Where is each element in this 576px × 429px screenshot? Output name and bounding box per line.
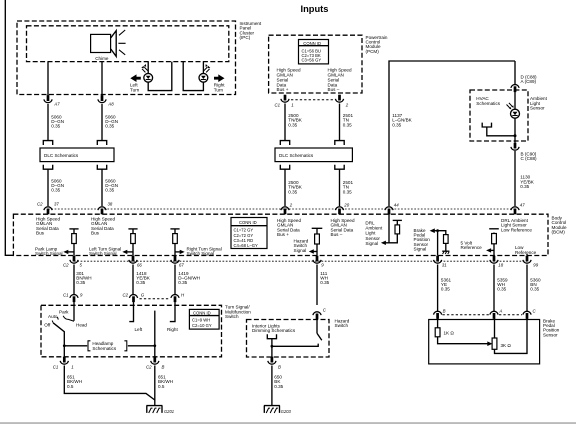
svg-text:Off: Off <box>44 323 51 328</box>
svg-text:1: 1 <box>291 102 294 107</box>
wire pin B to 1K resistor <box>437 319 439 328</box>
svg-text:A (C89): A (C89) <box>521 79 537 84</box>
bottom separator line <box>0 422 576 424</box>
svg-text:Turn: Turn <box>130 87 140 92</box>
connector pin 5 below BCM <box>70 256 78 263</box>
wire 5359 WH <box>493 265 495 312</box>
svg-text:Bus +: Bus + <box>277 232 289 237</box>
connector pin 99 below BCM <box>523 256 531 263</box>
left turn resistor (BCM internal) <box>128 229 137 256</box>
svg-text:0.35: 0.35 <box>136 280 145 285</box>
ground G201 <box>146 406 162 413</box>
connector B (C90) / C (C88) at HVAC box <box>511 143 519 150</box>
wire 5060 D-GN lower right <box>101 169 103 206</box>
connector D (C88) / A (C89) at HVAC box <box>511 85 519 92</box>
connector pin 2 of PCM <box>335 95 343 102</box>
svg-text:Switch Signal: Switch Signal <box>35 251 63 256</box>
hazard switch wire from pin C <box>316 319 318 333</box>
svg-text:A: A <box>499 309 503 314</box>
svg-text:0.5: 0.5 <box>67 384 74 389</box>
svg-text:3K Ω: 3K Ω <box>501 343 512 348</box>
5 volt reference resistor <box>492 234 497 244</box>
svg-text:31: 31 <box>442 263 447 268</box>
svg-text:0.35: 0.35 <box>105 124 114 129</box>
svg-text:Head: Head <box>76 322 87 327</box>
svg-text:Sensor: Sensor <box>543 332 558 337</box>
svg-text:Signal: Signal <box>294 248 307 253</box>
bracket connector above DLC box 2 left pin <box>280 141 289 145</box>
DRL ambient light sensor signal resistor (BCM internal) <box>386 220 402 242</box>
brake pedal position sensor signal wire and arrow (BCM internal) <box>430 228 446 255</box>
connector pin 66 below BCM <box>129 256 137 263</box>
DLC schematics box (left) <box>40 148 114 162</box>
hazard switch common wire <box>272 344 318 347</box>
svg-text:0.35: 0.35 <box>441 287 450 292</box>
svg-text:Inputs: Inputs <box>301 4 329 14</box>
DRL signal arrow <box>381 241 386 245</box>
svg-text:A7: A7 <box>53 102 60 107</box>
connector pin C1 1 of PCM <box>281 95 289 102</box>
wire turn signal common down <box>154 346 156 357</box>
bracket connector below DLC box right pin <box>97 165 106 169</box>
park lamp resistor (BCM internal) <box>69 229 78 256</box>
svg-text:18: 18 <box>498 263 503 268</box>
chime sub-box (dashed) <box>27 26 229 62</box>
svg-text:66: 66 <box>137 263 142 268</box>
connector pin H at switch <box>171 295 179 302</box>
wire 2501 TN upper <box>339 104 341 141</box>
svg-text:0.35: 0.35 <box>343 122 352 127</box>
powertrain control module box <box>269 35 362 93</box>
connector pin C1 1 below switch <box>60 357 68 364</box>
brake pedal position sensor box <box>429 320 540 364</box>
wire 1419 D-GN/WH <box>174 265 176 295</box>
svg-text:Reference: Reference <box>461 245 483 250</box>
left turn indicator lamp <box>141 62 152 83</box>
svg-text:CONN ID: CONN ID <box>303 41 321 46</box>
page left border line <box>5 0 13 255</box>
svg-text:CONN ID: CONN ID <box>193 311 211 316</box>
hazard resistor (BCM internal) <box>312 228 323 255</box>
connector pin 9 below BCM <box>313 256 321 263</box>
headlamp switch blade <box>53 323 64 346</box>
wire 1130 YE/BK <box>514 151 516 206</box>
connector pin C at brake pedal sensor <box>523 311 531 318</box>
interior lights bracket connector <box>267 334 276 339</box>
svg-text:44: 44 <box>394 202 399 207</box>
svg-text:Bus +: Bus + <box>277 87 289 92</box>
svg-text:C2: C2 <box>146 364 152 369</box>
svg-text:Signal: Signal <box>365 241 378 246</box>
svg-text:C1: C1 <box>275 102 281 107</box>
svg-text:5: 5 <box>80 263 83 268</box>
wiper wire with arrow <box>438 337 493 346</box>
connector pin C2 G at switch <box>129 295 137 302</box>
wire 3K resistor to pin C <box>495 319 528 354</box>
svg-text:38: 38 <box>108 201 113 206</box>
svg-text:B: B <box>162 364 165 369</box>
svg-text:DLC Schematics: DLC Schematics <box>279 153 314 158</box>
5 volt reference wire and arrow (BCM internal) <box>486 229 499 256</box>
PCM CONN ID table <box>299 40 329 64</box>
right turn indicator lamp <box>199 62 210 83</box>
bracket connector below DLC box left pin <box>43 165 52 169</box>
1K resistor <box>435 328 440 337</box>
bracket connector above DLC box 2 right pin <box>335 141 344 145</box>
junction dot headlamp common <box>63 344 66 347</box>
svg-text:Reference: Reference <box>515 250 537 255</box>
headlamp switch off contact tick <box>51 321 54 323</box>
svg-text:(BCM): (BCM) <box>552 230 566 235</box>
svg-text:Switch Signal: Switch Signal <box>89 251 117 256</box>
brake pedal sensor internal resistor <box>444 235 449 244</box>
svg-text:DLC Schematics: DLC Schematics <box>44 153 79 158</box>
svg-text:0.35: 0.35 <box>343 189 352 194</box>
svg-text:Schematics: Schematics <box>476 101 500 106</box>
wire 2501 TN lower <box>339 169 341 206</box>
headlamp switch auto contact tick <box>56 317 59 320</box>
bracket connector below DLC box 2 right pin <box>335 165 344 169</box>
hazard signal arrow <box>309 249 317 253</box>
svg-text:0.35: 0.35 <box>178 280 187 285</box>
svg-text:Bus –: Bus – <box>331 232 343 237</box>
wire headlamp common down <box>63 346 65 357</box>
wire pin A to 3K resistor <box>494 319 496 339</box>
svg-text:C2: C2 <box>123 293 129 298</box>
hazard switch blade <box>317 333 322 340</box>
switch CONN ID table <box>189 309 219 329</box>
ground G203 <box>264 406 280 413</box>
svg-text:Turn: Turn <box>214 87 224 92</box>
svg-text:H: H <box>181 293 185 298</box>
turn signal switch blade <box>154 311 156 346</box>
wire 651 left <box>64 366 155 401</box>
connector pin 38 at BCM <box>98 207 106 214</box>
wire 650 BK <box>271 366 273 406</box>
connector pin A7 <box>44 95 52 102</box>
low reference wire stub to pin 99 <box>526 254 528 256</box>
wire chime box to pin A8 <box>101 62 103 96</box>
svg-text:Right: Right <box>167 327 178 332</box>
wire 5060 D-GN upper right <box>101 104 103 140</box>
wire chime box to pin A7 <box>47 62 49 96</box>
wire 1418 YE/BK <box>132 265 134 295</box>
junction dot hazard common <box>271 345 274 348</box>
DRL ambient light sensor signal wire (pin 44 internal) <box>388 214 390 243</box>
svg-text:Schematics: Schematics <box>92 346 116 351</box>
left turn arrow icon <box>130 74 141 82</box>
svg-text:C (C88): C (C88) <box>521 156 538 161</box>
wire 111 WH <box>316 265 318 306</box>
connector dashed link C1 <box>291 99 334 101</box>
connector pin A at brake pedal sensor <box>490 311 498 318</box>
wire 2500 TN/BK upper <box>284 104 286 141</box>
svg-text:G203: G203 <box>281 409 292 414</box>
park lamp signal arrow <box>63 250 74 254</box>
svg-text:C2: C2 <box>63 263 69 268</box>
svg-text:G201: G201 <box>164 409 174 414</box>
wire 1137 L-GN/BK (BCM 44 up and over to sensor) <box>389 61 515 206</box>
svg-text:0.35: 0.35 <box>520 184 529 189</box>
HVAC schematics box <box>470 90 528 141</box>
connector dotted link A to C <box>499 314 522 316</box>
body control module box <box>13 214 548 255</box>
svg-text:Switch Signal: Switch Signal <box>187 251 215 256</box>
interior lights dimming box (dashed) <box>247 320 330 358</box>
svg-text:9: 9 <box>80 293 83 298</box>
svg-text:Park: Park <box>59 309 69 314</box>
svg-text:0.35: 0.35 <box>320 280 329 285</box>
svg-text:0.35: 0.35 <box>76 280 85 285</box>
svg-text:0.35: 0.35 <box>105 188 114 193</box>
connector dotted line top row <box>48 208 515 210</box>
right turn arrow icon <box>214 74 225 82</box>
svg-text:0.5: 0.5 <box>158 384 165 389</box>
svg-text:2: 2 <box>345 102 349 107</box>
connector pin A8 <box>98 95 106 102</box>
connector pin B at brake pedal sensor <box>434 311 442 318</box>
svg-text:Bus –: Bus – <box>328 87 340 92</box>
connector dotted link B to A <box>443 314 490 316</box>
svg-text:Left: Left <box>135 327 143 332</box>
brake pedal sensor internal ground <box>442 243 449 254</box>
svg-text:0.35: 0.35 <box>530 287 539 292</box>
bracket connector above DLC box right pin <box>97 141 106 145</box>
connector dotted line bottom row <box>74 260 527 262</box>
wire 5360 BN <box>526 265 528 312</box>
svg-text:67: 67 <box>179 263 184 268</box>
instrument panel cluster module box <box>17 21 236 95</box>
wire 5060 D-GN upper left <box>47 104 49 140</box>
BCM CONN ID table <box>231 218 267 249</box>
svg-text:C1: C1 <box>53 364 59 369</box>
svg-text:Bus: Bus <box>91 231 100 236</box>
junction dot <box>514 134 517 137</box>
connector pin C at hazard switch <box>313 312 321 319</box>
svg-text:(IPC): (IPC) <box>240 35 251 40</box>
svg-text:C1: C1 <box>63 293 69 298</box>
wire into photodiode <box>514 91 516 110</box>
svg-text:1: 1 <box>71 364 74 369</box>
junction dot turn signal common <box>153 344 156 347</box>
wire right indicator loop <box>183 62 203 91</box>
left turn signal arrow <box>122 250 133 254</box>
svg-text:0.35: 0.35 <box>51 124 60 129</box>
svg-text:CONN ID: CONN ID <box>239 220 257 225</box>
connector pin B below hazard box <box>268 357 276 364</box>
wire 301 BN/WH <box>73 265 75 295</box>
bracket connector above DLC box left pin <box>43 141 52 145</box>
HVAC branch bracket connector <box>482 123 491 127</box>
connector pin 20 at BCM <box>335 207 343 214</box>
wire photodiode to junction <box>514 118 516 143</box>
headlamp schematics right bracket <box>124 341 126 351</box>
svg-text:47: 47 <box>520 202 525 207</box>
svg-text:B: B <box>278 364 281 369</box>
svg-text:(PCM): (PCM) <box>366 49 380 54</box>
svg-text:Auto: Auto <box>48 314 58 319</box>
svg-text:20: 20 <box>343 202 349 207</box>
bracket stem wire <box>271 339 273 357</box>
wire left indicator loop <box>148 62 172 91</box>
svg-text:37: 37 <box>54 201 59 206</box>
wire pin H down to right contact <box>170 302 175 322</box>
svg-text:C2: C2 <box>37 201 43 206</box>
connector pin 37 at BCM <box>44 207 52 214</box>
right turn signal arrow <box>175 250 185 254</box>
connector pin 31 below BCM <box>434 256 442 263</box>
ambient light sensor photodiode <box>507 103 520 118</box>
svg-text:C: C <box>533 309 537 314</box>
wire pin 9 down to head contact <box>73 302 75 321</box>
connector dotted link G to H <box>140 298 171 300</box>
headlamp bus wire to turn signal common <box>128 345 155 347</box>
wire ambient light sensor drop <box>514 61 516 84</box>
svg-text:0.35: 0.35 <box>274 384 283 389</box>
connector pin C1 9 at switch <box>70 295 78 302</box>
right turn resistor (BCM internal) <box>170 229 179 256</box>
wire 5060 D-GN lower left <box>47 169 49 206</box>
wire 651 right <box>154 366 156 406</box>
HVAC branch wire <box>487 127 515 136</box>
svg-text:C3=56 GY: C3=56 GY <box>302 57 322 62</box>
svg-text:1K Ω: 1K Ω <box>444 331 455 336</box>
3K resistor <box>492 338 497 349</box>
svg-text:Switch: Switch <box>225 314 239 319</box>
svg-text:C2=10 GY: C2=10 GY <box>192 323 212 328</box>
wire 2500 TN/BK lower <box>284 169 286 206</box>
svg-text:Signal: Signal <box>414 247 427 252</box>
svg-text:C: C <box>323 307 327 312</box>
svg-text:Switch: Switch <box>335 323 349 328</box>
svg-text:0.35: 0.35 <box>497 287 506 292</box>
connector pin 18 below BCM <box>490 256 498 263</box>
svg-text:0.35: 0.35 <box>392 122 401 127</box>
headlamp switch park contact curve <box>63 316 74 322</box>
svg-text:Bus: Bus <box>36 231 45 236</box>
wire 5361 YE <box>437 265 439 312</box>
connector pin 47 at BCM <box>511 207 519 214</box>
svg-text:Dimming Schematics: Dimming Schematics <box>252 328 296 333</box>
wire pin G down to left contact <box>129 302 133 322</box>
connector pin 44 at BCM <box>385 207 393 214</box>
svg-text:9: 9 <box>321 263 324 268</box>
svg-text:0.35: 0.35 <box>288 189 297 194</box>
chime speaker icon <box>91 30 126 56</box>
svg-text:G: G <box>141 293 145 298</box>
connector pin 67 below BCM <box>171 256 179 263</box>
svg-text:B: B <box>443 309 446 314</box>
headlamp schematics left bracket <box>88 341 90 351</box>
connector pin C2 B below switch <box>151 357 159 364</box>
svg-text:2: 2 <box>289 202 293 207</box>
headlamp common bus wire <box>64 345 87 347</box>
svg-text:0.35: 0.35 <box>51 188 60 193</box>
DLC schematics box (center) <box>275 148 352 162</box>
svg-text:99: 99 <box>533 263 538 268</box>
svg-text:C4=68 L–GY: C4=68 L–GY <box>234 243 259 248</box>
turn signal multifunction switch box <box>41 305 222 357</box>
svg-text:A8: A8 <box>107 102 114 107</box>
svg-text:Low Reference: Low Reference <box>501 227 532 232</box>
svg-text:Sensor: Sensor <box>530 106 545 111</box>
connector pin 2 at BCM <box>281 207 289 214</box>
svg-text:Chime: Chime <box>95 56 109 61</box>
svg-text:0.35: 0.35 <box>288 122 297 127</box>
bracket connector below DLC box 2 left pin <box>280 165 289 169</box>
